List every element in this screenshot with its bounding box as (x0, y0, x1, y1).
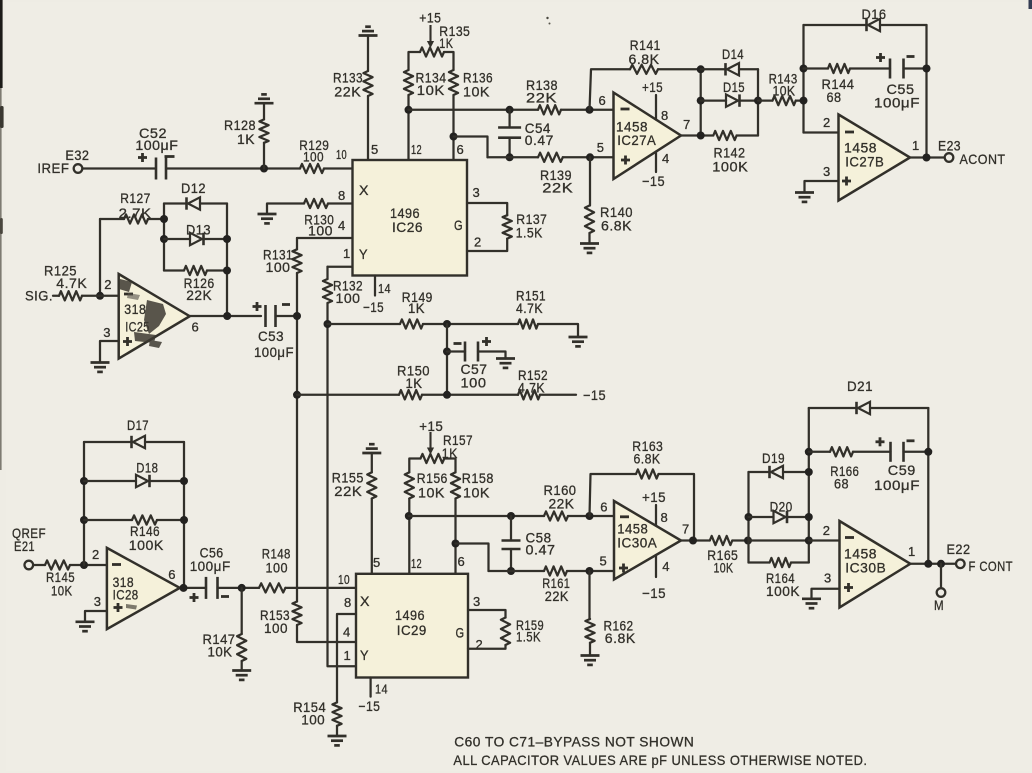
svg-text:1K: 1K (237, 131, 255, 147)
resistor R155 (367, 472, 376, 498)
wire X vertical long (296, 273, 298, 602)
C53 plus mark (253, 305, 262, 308)
svg-text:100: 100 (308, 223, 333, 239)
svg-text:6.8K: 6.8K (605, 630, 636, 646)
svg-text:E21: E21 (14, 538, 35, 554)
junction C59/right rail (924, 448, 932, 456)
svg-text:2.7K: 2.7K (119, 205, 152, 221)
C57 minus mark (454, 342, 462, 345)
wire IC30B pin3 row (812, 589, 840, 599)
svg-text:8: 8 (661, 108, 669, 123)
wire R145 to IC28 pin2 (70, 564, 107, 566)
svg-text:1: 1 (908, 544, 916, 559)
wire C57 right lead to ground (478, 352, 506, 359)
IC27B inverting mark (845, 131, 854, 134)
svg-text:1.5K: 1.5K (516, 629, 541, 645)
wire R162 top lead (588, 571, 590, 619)
svg-text:Y: Y (360, 647, 369, 663)
svg-text:2: 2 (104, 277, 112, 292)
wire D17 left lead (84, 441, 132, 443)
svg-text:6: 6 (457, 142, 465, 157)
wire IC25 output row (190, 315, 261, 317)
svg-text:D19: D19 (762, 450, 785, 466)
potentiometer R135 (420, 47, 444, 56)
wire D13 left lead (164, 238, 190, 240)
IC26 pin14 stub (374, 276, 376, 296)
junction R141/pin6 row (586, 106, 594, 114)
node E21 terminal (25, 561, 34, 570)
resistor R131 (292, 249, 301, 273)
svg-text:D13: D13 (186, 222, 211, 238)
svg-text:IC29: IC29 (397, 622, 427, 638)
wire IC27B pin2 row (804, 131, 839, 133)
svg-text:ACONT: ACONT (960, 151, 1006, 167)
junction R141/D14 (697, 65, 705, 73)
svg-text:Y: Y (359, 246, 368, 262)
wire minus15 rail (297, 394, 399, 396)
svg-text:X: X (360, 593, 370, 609)
svg-text:10K: 10K (463, 83, 490, 99)
svg-text:5: 5 (373, 555, 381, 570)
resistor R154 (332, 702, 341, 725)
resistor R160 (544, 511, 568, 520)
wire bottom link row (456, 544, 489, 572)
wire D19 left lead (749, 471, 770, 473)
node SIG junction (96, 292, 104, 300)
wire D18 right lead (150, 480, 185, 482)
ground IC28 pin3 (76, 620, 95, 623)
svg-text:D12: D12 (181, 180, 206, 196)
wire R127 left vertical (99, 219, 101, 296)
wire IREF line left of C52 (83, 167, 155, 169)
wire R141 feedback (590, 69, 631, 110)
IC30A inverting mark (620, 515, 629, 518)
junction R128/IREF (260, 165, 268, 173)
wire R140 bottom lead (588, 233, 590, 244)
diode D15 (726, 94, 738, 106)
diode D19 (771, 466, 783, 478)
junction D18 right (180, 477, 188, 485)
junction R158/link row (452, 540, 460, 548)
IC28 scan smudge (126, 604, 137, 610)
junction R149/C57 branch (443, 320, 451, 328)
wire D12 right lead (200, 202, 227, 204)
supply +15 arrow top (429, 25, 431, 45)
resistor R161 (544, 566, 567, 575)
wire R126 left lead (164, 269, 184, 271)
resistor R158 (451, 472, 460, 498)
wire R136 to IC26 pin6 (452, 95, 454, 160)
junction R166 left (805, 448, 813, 456)
diode D12 (188, 197, 200, 209)
wire IC30B pin2 row (809, 539, 840, 541)
junction R146 right (180, 516, 188, 524)
wire IC27B left rail (802, 25, 804, 133)
resistor R145 (45, 560, 70, 569)
wire D16 row (804, 24, 867, 26)
svg-text:2: 2 (474, 235, 482, 250)
wire pin5 row (488, 156, 539, 158)
junction D13/left rail (160, 235, 168, 243)
svg-text:100: 100 (301, 711, 325, 727)
resistor R127 (124, 214, 148, 223)
wire D16 right lead (880, 24, 927, 26)
svg-text:X: X (359, 182, 369, 198)
wire D12 loop left rail (163, 204, 165, 271)
C55 minus mark (907, 55, 915, 58)
svg-text:G: G (454, 217, 463, 233)
junction D20 right (805, 513, 813, 521)
wire bottom diode group left rail (747, 472, 749, 563)
svg-text:3: 3 (94, 594, 102, 609)
svg-text:C53: C53 (258, 328, 284, 344)
resistor R166 (830, 447, 853, 456)
capacitor C59 (889, 442, 892, 462)
svg-text:4: 4 (343, 625, 351, 640)
svg-text:4: 4 (662, 151, 670, 166)
resistor R147 (237, 634, 246, 661)
junction R156/pin6 row (405, 512, 413, 520)
wire link row from R136 (454, 137, 488, 158)
wire D13 right lead (204, 238, 228, 240)
ground R151 (569, 336, 588, 339)
wire IC26 pin2 row (467, 239, 507, 251)
svg-text:IC28: IC28 (113, 587, 139, 603)
junction D13/right rail (223, 235, 231, 243)
IC27B plus mark (842, 180, 851, 183)
svg-text:6: 6 (458, 554, 466, 569)
svg-text:6.8K: 6.8K (634, 451, 661, 467)
svg-text:D17: D17 (127, 417, 149, 433)
ground R140 (580, 242, 599, 245)
svg-text:F CONT: F CONT (969, 558, 1014, 574)
wire R139 to IC27A pin5 (563, 156, 614, 158)
svg-text:7: 7 (682, 522, 690, 537)
svg-text:5: 5 (371, 142, 379, 157)
wire R133 top lead (367, 36, 369, 72)
op-amp IC27B (839, 115, 911, 201)
junction IC28 out/right rail (180, 584, 188, 592)
wire R155 top lead (371, 453, 373, 472)
svg-text:68: 68 (834, 476, 849, 492)
svg-text:+15: +15 (419, 10, 441, 26)
junction C54 bottom (506, 153, 514, 161)
wire pin6 row (409, 109, 539, 111)
scan edge bar top-left (0, 0, 3, 88)
diode D21 (858, 402, 870, 414)
wire R148 to IC29 pin10 (285, 587, 356, 589)
C59 minus mark (907, 439, 915, 442)
ground R154 (328, 735, 347, 738)
svg-text:22K: 22K (526, 90, 557, 106)
wire M branch (940, 564, 942, 588)
wire R160 to IC30A pin6 (568, 515, 614, 517)
resistor R134 (404, 70, 413, 95)
wire R125 to IC25 pin2 (82, 295, 119, 297)
svg-text:68: 68 (827, 89, 842, 105)
resistor R126 (184, 266, 207, 275)
IC30A pin4 stub (655, 555, 657, 577)
svg-text:4: 4 (662, 559, 670, 574)
IC28 plus mark (114, 606, 123, 609)
wire R154 bottom lead (336, 726, 338, 736)
wire bottom diode group right rail (808, 408, 810, 563)
multiplier IC26 box (353, 160, 468, 276)
svg-text:1K: 1K (408, 300, 425, 316)
svg-text:M: M (934, 597, 944, 613)
svg-text:100K: 100K (712, 158, 748, 174)
svg-text:−15: −15 (642, 173, 665, 189)
svg-text:6.8K: 6.8K (601, 218, 632, 234)
resistor R142 (713, 131, 736, 140)
ground R147 (232, 669, 251, 672)
potentiometer R157 (421, 454, 445, 463)
wire D17 loop right rail (183, 442, 185, 588)
supply +15 arrow bottom (429, 432, 431, 452)
svg-text:IC30A: IC30A (617, 534, 657, 550)
op-amp IC25 (119, 274, 190, 359)
svg-text:14: 14 (378, 281, 391, 296)
svg-text:7: 7 (683, 117, 691, 132)
svg-text:IC27A: IC27A (617, 132, 656, 148)
wire minus15 rail mid (422, 394, 518, 396)
C52 plus mark (138, 156, 147, 159)
IC25 plus mark (123, 340, 132, 343)
svg-text:3: 3 (103, 325, 111, 340)
svg-text:R127: R127 (120, 190, 151, 206)
wire D14 right lead (739, 68, 758, 70)
scan corner top-right (1029, 0, 1032, 9)
IC30A pin8 stub (655, 505, 657, 526)
resistor R141 (630, 65, 658, 74)
resistor R156 (405, 472, 414, 498)
junction D18 left (80, 477, 88, 485)
wire R149 rail mid (423, 323, 518, 325)
IC30B inverting mark (845, 536, 854, 539)
ground R162 (581, 654, 600, 657)
svg-text:5: 5 (600, 553, 608, 568)
wire R142 right lead (737, 134, 758, 136)
resistor R138 (538, 105, 561, 114)
svg-text:22K: 22K (334, 483, 362, 499)
junction D15/R143 (754, 97, 762, 105)
C59 plus mark (876, 440, 885, 443)
wire R163 feedback left (590, 474, 637, 516)
svg-text:D16: D16 (862, 6, 887, 22)
svg-text:−15: −15 (363, 299, 384, 315)
capacitor C55 (889, 59, 892, 79)
wire R146 left lead (84, 519, 132, 521)
wire R152 to -15 (540, 394, 576, 396)
node M terminal (937, 588, 946, 597)
svg-text:22K: 22K (542, 180, 573, 196)
node E22 terminal (956, 560, 965, 569)
capacitor C56 (205, 577, 208, 599)
svg-text:E22: E22 (947, 541, 971, 557)
svg-text:10K: 10K (773, 83, 796, 99)
svg-text:100: 100 (336, 290, 361, 306)
svg-text:1496: 1496 (395, 607, 425, 623)
scan blob left 2 (0, 218, 3, 234)
junction Y vertical/R149 rail (324, 320, 332, 328)
ground IC26 pin8 (258, 213, 277, 216)
svg-text:−15: −15 (358, 698, 380, 714)
svg-text:100K: 100K (129, 537, 164, 553)
wire IC29 pin3 row (468, 610, 506, 618)
wire R140 top lead (589, 157, 591, 205)
svg-text:+15: +15 (419, 418, 443, 434)
junction R146 left (80, 516, 88, 524)
wire IREF line right of C52 (167, 167, 301, 169)
scan edge line left (0, 88, 2, 470)
svg-text:D18: D18 (136, 459, 158, 475)
diode D20 (774, 511, 786, 523)
svg-text:3: 3 (473, 594, 481, 609)
ground IC30B pin3 (802, 597, 821, 600)
IC30B plus mark (844, 586, 853, 589)
junction R127/left rail (160, 215, 168, 223)
C56 minus mark (221, 595, 229, 598)
diode D13 (190, 233, 202, 245)
IC25 scan smudge (119, 279, 166, 348)
svg-text:6: 6 (168, 567, 176, 582)
wire R151 to ground (538, 324, 578, 337)
svg-text:22K: 22K (545, 588, 569, 604)
wire D15 right lead (740, 99, 759, 101)
resistor R132 (323, 279, 332, 303)
wire SIG lead (53, 295, 59, 297)
wire D21 right lead (870, 407, 928, 409)
wire D18 left lead (84, 480, 136, 482)
wire IC26 pin8 ground lead (267, 204, 304, 215)
wire R156 to IC29 pin12 (408, 499, 410, 574)
op-amp IC30A (614, 501, 681, 580)
wire R158 to IC29 pin6 (454, 499, 456, 574)
wire D15 left lead (701, 99, 726, 101)
wire D14 left lead (701, 68, 726, 70)
svg-text:1.5K: 1.5K (516, 225, 543, 241)
svg-text:100μF: 100μF (190, 558, 231, 574)
svg-text:3: 3 (824, 571, 832, 586)
junction C58 top (507, 512, 515, 520)
svg-text:2: 2 (92, 547, 100, 562)
wire R144 left lead (804, 67, 829, 69)
wire R143 to IC27B rail (796, 99, 804, 101)
svg-text:−15: −15 (583, 387, 606, 403)
wire C57 branch vertical (446, 324, 448, 395)
wire bottom pin5 row (489, 570, 545, 572)
C55 plus mark (876, 56, 885, 59)
svg-text:8: 8 (344, 595, 352, 610)
svg-text:1: 1 (344, 648, 352, 663)
svg-text:10K: 10K (51, 583, 73, 599)
svg-text:100μF: 100μF (135, 137, 178, 153)
svg-text:IC26: IC26 (392, 219, 423, 235)
wire R127 left lead (100, 218, 124, 220)
svg-text:8: 8 (661, 510, 669, 525)
wire IC26 pin1 row (328, 266, 353, 268)
svg-text:C60 TO C71–BYPASS NOT SHOWN: C60 TO C71–BYPASS NOT SHOWN (454, 734, 694, 750)
wire R149 rail (328, 323, 401, 325)
junction right rail/output (923, 154, 931, 162)
svg-text:C59: C59 (888, 462, 916, 478)
multiplier IC29 box (356, 574, 468, 678)
junction R163/pin6 row (586, 512, 594, 520)
resistor R137 (503, 215, 512, 238)
svg-text:6: 6 (192, 320, 200, 335)
capacitor C53 (264, 305, 267, 327)
junction pin2 row (805, 537, 813, 545)
svg-text:+15: +15 (642, 79, 663, 95)
resistor R163 (636, 469, 659, 478)
resistor R143 (773, 96, 796, 105)
svg-text:10K: 10K (714, 559, 734, 575)
svg-text:6: 6 (599, 93, 607, 108)
svg-text:10: 10 (336, 147, 347, 162)
wire R153 to IC29 pin4 (297, 625, 356, 642)
resistor R164 (770, 558, 791, 567)
diode D14 (727, 63, 739, 75)
svg-text:3: 3 (823, 164, 831, 179)
wire D21 row (809, 407, 857, 409)
IC27A plus mark (621, 159, 630, 162)
wire R138 to IC27A pin6 (561, 109, 614, 111)
diode D17 (133, 436, 145, 448)
C53 minus mark (282, 303, 290, 306)
wire R141 to D14 row (658, 68, 701, 70)
wire IC26 pin4 row (297, 237, 353, 239)
junction IC25 out/right rail (223, 312, 231, 320)
wire R164 left lead (749, 561, 770, 563)
junction R163/out (689, 537, 697, 545)
svg-text:D21: D21 (847, 378, 873, 394)
svg-text:12: 12 (411, 556, 422, 571)
wire pin2 link row (749, 539, 809, 541)
resistor R129 (300, 164, 324, 173)
svg-text:IREF: IREF (37, 160, 69, 176)
svg-text:22K: 22K (334, 83, 361, 99)
wire IC29 pin8 to R154 (337, 614, 356, 702)
svg-text:4: 4 (338, 218, 346, 233)
wire IC29 pin2 row (468, 645, 506, 649)
wire IC30B right rail (927, 408, 929, 564)
wire D12 left lead (164, 202, 187, 204)
junction C56/R147 (238, 584, 246, 592)
resistor R149 (400, 319, 423, 328)
IC27A pin4 stub (655, 152, 657, 172)
svg-text:1: 1 (343, 246, 351, 261)
wire R129 to IC26 pin10 (324, 167, 353, 169)
svg-text:1K: 1K (406, 375, 423, 391)
svg-text:100: 100 (264, 620, 288, 636)
resistor R140 (585, 206, 594, 234)
wire C57 left lead (447, 350, 465, 352)
svg-text:D15: D15 (723, 79, 745, 95)
svg-text:1: 1 (912, 138, 920, 153)
wire R166 to C59 (853, 451, 891, 453)
wire IC30A out lead (681, 539, 710, 541)
svg-text:100: 100 (266, 559, 289, 575)
op-amp IC28 (107, 548, 180, 629)
resistor R159 (501, 618, 510, 646)
svg-text:12: 12 (411, 142, 422, 157)
junction D19 right (805, 468, 813, 476)
svg-text:1K: 1K (442, 445, 458, 461)
scan blob left 1 (0, 106, 4, 128)
C57 plus mark (482, 340, 491, 343)
capacitor C52 (155, 158, 158, 180)
svg-text:+15: +15 (642, 489, 666, 505)
